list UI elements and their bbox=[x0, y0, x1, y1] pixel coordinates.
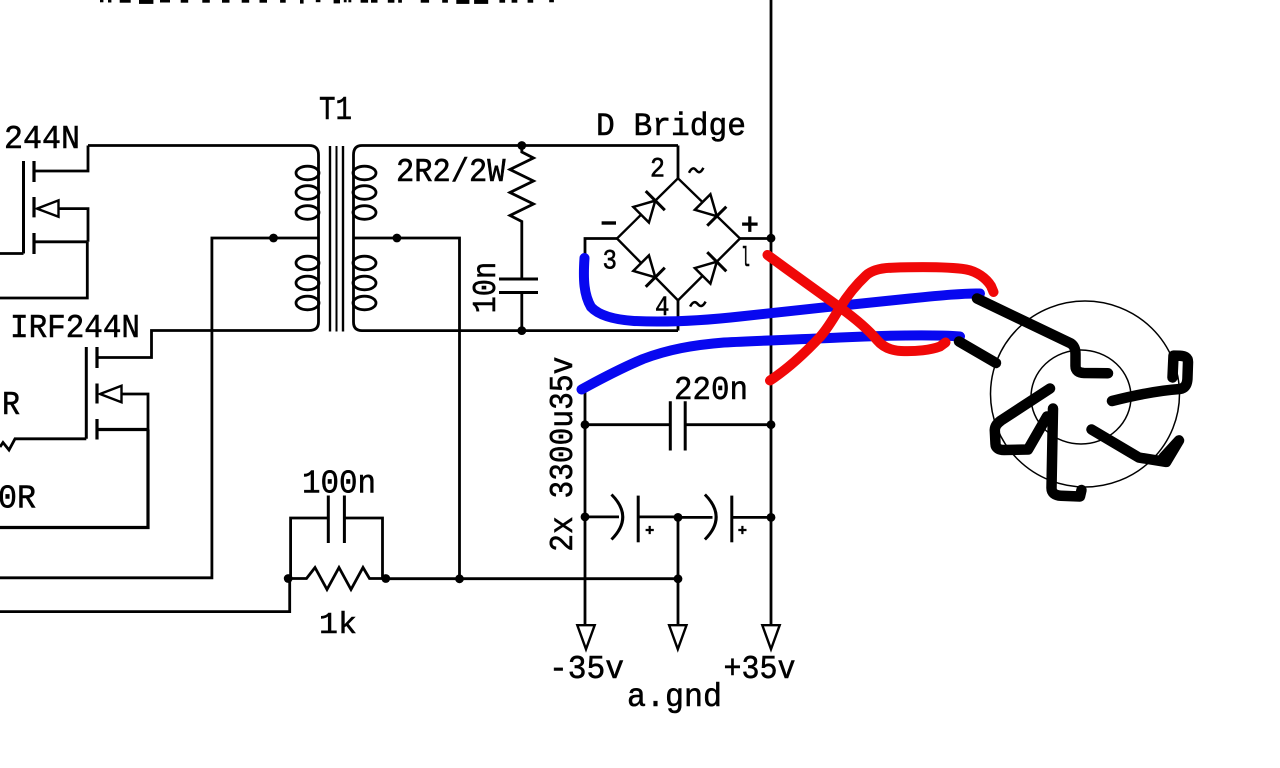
node right tap bbox=[393, 234, 402, 243]
diode bridge frame bbox=[617, 178, 740, 300]
wire drain Q2 to transformer bbox=[97, 331, 309, 358]
transistor Q1 IRF244N (upper) gate bar bbox=[22, 161, 25, 254]
node 220n right bbox=[767, 420, 776, 429]
ground arrow a.gnd bbox=[669, 625, 686, 649]
svg-text:0R: 0R bbox=[0, 481, 36, 518]
node left tap bbox=[269, 234, 278, 243]
wire a.gnd vertical bbox=[677, 517, 680, 625]
wire gate Q1 to left edge bbox=[0, 252, 24, 255]
connector left hook bbox=[995, 389, 1050, 451]
svg-text:l: l bbox=[741, 244, 750, 275]
transistor Q1 channel dashes bbox=[32, 161, 35, 254]
hand-drawn black lead 1 (to connector) bbox=[977, 299, 1108, 374]
wire +35v rail bbox=[770, 0, 773, 625]
connector outer circle bbox=[991, 301, 1180, 487]
connector inner circle bbox=[1031, 350, 1131, 444]
svg-text:-35v: -35v bbox=[549, 651, 624, 688]
label minus bbox=[602, 221, 616, 224]
svg-text:+35v: +35v bbox=[724, 651, 796, 688]
node top rail / 2R2 bbox=[517, 141, 526, 150]
node caps center bbox=[674, 513, 683, 522]
wire transformer left tap to left edge bbox=[0, 238, 319, 578]
transformer T1 left winding bbox=[309, 146, 319, 331]
transistor Q2 channel dashes bbox=[95, 347, 98, 440]
capacitor C2 electrolytic (right) bbox=[678, 516, 713, 519]
wire bridge plus stub bbox=[740, 237, 771, 240]
wire bridge bottom stub bbox=[677, 300, 680, 330]
wire bridge top stub bbox=[677, 146, 680, 179]
wire lower-left bus to 1k bbox=[0, 579, 290, 612]
svg-text:220n: 220n bbox=[674, 372, 748, 409]
node caps right bbox=[767, 513, 776, 522]
transformer T1 core bbox=[330, 146, 343, 332]
wire drain Q1 to top rail bbox=[34, 146, 88, 172]
node 10n bottom bbox=[517, 326, 526, 335]
node 1k right bbox=[381, 574, 390, 583]
title text fragments (cut off at top) bbox=[100, 0, 554, 4]
node bus / tap vertical bbox=[455, 574, 464, 583]
svg-text:100n: 100n bbox=[302, 466, 376, 503]
diode D1 (3 to 2) bbox=[632, 191, 665, 224]
hand-drawn black lead 2 bbox=[959, 342, 996, 364]
svg-text:2: 2 bbox=[650, 155, 665, 186]
transistor Q2 IRF244N (lower) gate bar bbox=[85, 347, 88, 439]
capacitor 100n bracket bbox=[291, 518, 383, 579]
resistor 2R2/2W bbox=[510, 146, 534, 280]
svg-text:2x 3300u35v: 2x 3300u35v bbox=[545, 357, 582, 552]
node bus / a.gnd bbox=[674, 574, 683, 583]
diode D3 (3 to 4) bbox=[632, 254, 665, 287]
wire gate Q2 to resistor at left edge bbox=[0, 439, 86, 450]
node bridge plus bbox=[767, 234, 776, 243]
wire transformer right tap down to gnd bus bbox=[354, 238, 460, 579]
node caps left bbox=[581, 513, 590, 522]
wire body Q1 tie bbox=[59, 209, 89, 242]
connector bottom-right hook bbox=[1092, 430, 1180, 462]
ground arrow +35v bbox=[762, 625, 779, 649]
wire bottom rail winding to bridge bbox=[362, 329, 678, 332]
wire gnd bus bbox=[386, 577, 678, 580]
svg-text:D Bridge: D Bridge bbox=[596, 108, 746, 145]
transformer T1 right winding bbox=[354, 146, 363, 331]
label ~ top bbox=[689, 168, 703, 173]
connector right hook bbox=[1112, 356, 1188, 401]
svg-text:R: R bbox=[2, 387, 20, 424]
transistor Q2 body arrow bbox=[100, 386, 122, 402]
capacitor 220n bbox=[585, 423, 771, 426]
wire top rail MOSFET to bridge bbox=[88, 144, 678, 147]
svg-text:244N: 244N bbox=[4, 121, 80, 158]
diode D4 (4 to 1) bbox=[693, 252, 726, 285]
hand-drawn red wire B (from +35v rail, crossing up) bbox=[770, 267, 994, 380]
resistor 1k bbox=[288, 568, 386, 590]
diode D2 (2 to 1) bbox=[693, 192, 726, 225]
wire -35v rail bbox=[584, 390, 587, 625]
wire source Q1 to left edge bbox=[0, 242, 87, 298]
hand-drawn red wire A (from + node, crossing down) bbox=[768, 255, 946, 351]
node 220n left bbox=[581, 420, 590, 429]
connector bottom hook bbox=[1052, 409, 1082, 497]
wire body Q2 tie bbox=[122, 394, 149, 430]
hand-drawn blue wire 1 (from bridge minus) bbox=[584, 258, 980, 321]
svg-text:a.gnd: a.gnd bbox=[627, 679, 722, 716]
transistor Q1 body arrow bbox=[37, 200, 59, 216]
node 1k left bbox=[284, 574, 293, 583]
wire source Q2 to left edge bbox=[0, 430, 148, 528]
svg-text:T1: T1 bbox=[319, 92, 352, 129]
capacitor C1 electrolytic (left) bbox=[585, 516, 619, 519]
svg-text:IRF244N: IRF244N bbox=[10, 310, 140, 347]
label plus bbox=[742, 216, 758, 232]
hand-drawn blue wire 2 (from -35v rail top) bbox=[582, 335, 961, 389]
wire bridge minus stub bbox=[585, 239, 617, 260]
svg-text:2R2/2W: 2R2/2W bbox=[396, 154, 506, 191]
svg-text:3: 3 bbox=[603, 247, 618, 278]
ground arrow -35v bbox=[577, 625, 594, 649]
svg-text:10n: 10n bbox=[468, 262, 505, 314]
svg-text:1k: 1k bbox=[319, 608, 357, 643]
label ~ bottom bbox=[690, 302, 706, 307]
capacitor 10n bbox=[499, 279, 538, 293]
